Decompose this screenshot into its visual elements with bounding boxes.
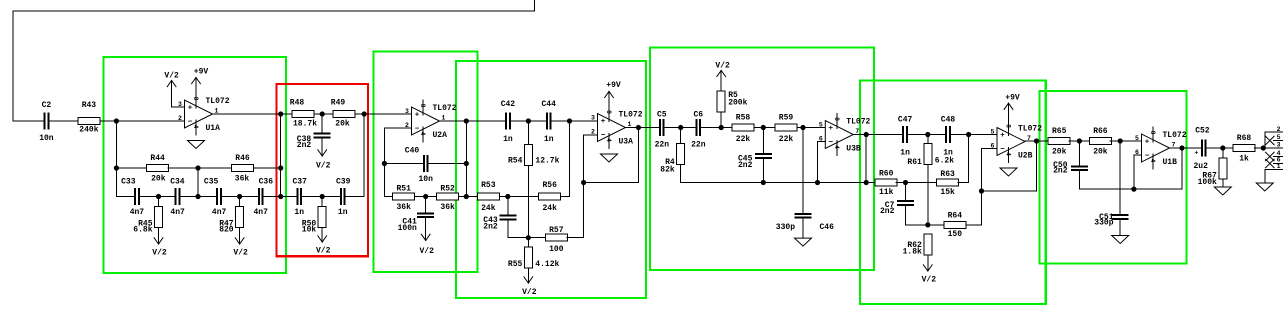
resistor R47 820 bbox=[219, 207, 243, 235]
svg-text:+: + bbox=[601, 118, 606, 126]
junction C41 tap bbox=[423, 194, 428, 199]
wire U2B pin6 vertical bbox=[981, 149, 983, 192]
svg-text:V/2: V/2 bbox=[152, 249, 167, 258]
junction U1A output bbox=[278, 111, 283, 116]
capacitor C38 2n2 bbox=[297, 133, 331, 150]
wire R56 right bbox=[561, 196, 570, 198]
svg-text:2: 2 bbox=[178, 115, 182, 122]
junction R62 node bbox=[925, 222, 930, 227]
resistor R44 20k bbox=[147, 154, 169, 184]
svg-text:20k: 20k bbox=[1093, 148, 1108, 157]
stage 1 highlight box (green) bbox=[104, 57, 286, 273]
supply V/2 under C41 bbox=[419, 218, 434, 256]
op-amp U3B TL072 bbox=[819, 114, 871, 156]
resistor R48 18.7k bbox=[290, 99, 317, 129]
capacitor C33 4n7 bbox=[121, 177, 144, 217]
wire U2A pin 2 left bbox=[384, 127, 411, 129]
svg-text:R46: R46 bbox=[235, 154, 250, 163]
supply V/2 under R50 bbox=[316, 228, 331, 256]
wire to R55 bbox=[527, 238, 529, 247]
wire to C40 bbox=[384, 163, 422, 165]
op-amp U2A TL072 bbox=[405, 100, 457, 142]
svg-text:R44: R44 bbox=[150, 154, 165, 163]
resistor R49 20k bbox=[331, 99, 355, 129]
wire U2B pin 6 bbox=[982, 148, 998, 150]
junction U2B output bbox=[1034, 138, 1039, 143]
wire C35 to C36 bbox=[222, 196, 258, 198]
wire to R54 bbox=[527, 121, 529, 145]
svg-text:330p: 330p bbox=[1094, 219, 1113, 228]
junction row C mid bbox=[195, 165, 200, 170]
capacitor C42 1n bbox=[501, 100, 516, 144]
resistor R53 24k bbox=[477, 181, 499, 213]
svg-text:C42: C42 bbox=[501, 100, 516, 109]
wire C43 to R55 node bbox=[507, 220, 509, 237]
svg-text:2: 2 bbox=[1277, 126, 1281, 133]
resistor R60 11k bbox=[875, 170, 897, 198]
svg-text:2: 2 bbox=[591, 129, 595, 136]
stage 2 highlight box (red) bbox=[277, 84, 369, 256]
wire R58 to R59 bbox=[754, 127, 775, 129]
capacitor C5 22n bbox=[655, 111, 670, 150]
svg-text:TL072: TL072 bbox=[1163, 131, 1187, 140]
svg-text:V/2: V/2 bbox=[316, 162, 331, 171]
wire U2A feedback vertical bbox=[383, 128, 385, 197]
wire C44 to U3A pin 3 bbox=[552, 120, 598, 122]
svg-text:6.8k: 6.8k bbox=[133, 226, 152, 235]
svg-text:R60: R60 bbox=[879, 170, 894, 179]
resistor R56 24k bbox=[539, 181, 561, 213]
wire C45 to bottom row bbox=[762, 159, 764, 183]
capacitor C44 1n bbox=[541, 100, 556, 144]
svg-text:1: 1 bbox=[628, 121, 632, 128]
svg-text:4: 4 bbox=[605, 138, 612, 142]
wire R60 to R63 bbox=[896, 182, 937, 184]
wire C39 riser bbox=[363, 114, 365, 197]
svg-text:820: 820 bbox=[219, 226, 234, 235]
wire U1A output bbox=[213, 113, 292, 115]
junction R55 tap bbox=[526, 235, 531, 240]
svg-text:U3A: U3A bbox=[619, 138, 634, 147]
wire C47 to C48 bbox=[908, 134, 945, 136]
svg-text:5: 5 bbox=[1135, 135, 1139, 142]
wire to R61 bbox=[927, 135, 929, 144]
connector X1 pin 1 bbox=[1265, 163, 1283, 170]
svg-text:R56: R56 bbox=[542, 181, 557, 190]
wire R67 to ground bbox=[1222, 179, 1224, 187]
svg-text:2u2: 2u2 bbox=[1193, 162, 1208, 171]
svg-text:−: − bbox=[601, 132, 606, 140]
svg-text:20k: 20k bbox=[151, 175, 166, 184]
svg-text:1: 1 bbox=[442, 115, 446, 122]
svg-text:1n: 1n bbox=[900, 149, 910, 158]
wire U2B feedback horizontal bbox=[982, 190, 1037, 192]
wire R61 to R62 node bbox=[927, 165, 929, 225]
svg-text:C44: C44 bbox=[541, 100, 556, 109]
svg-text:2n2: 2n2 bbox=[738, 161, 753, 170]
supply V/2 under C38 bbox=[316, 139, 331, 171]
wire R53 to R56 bbox=[499, 196, 539, 198]
wire R63 riser bbox=[968, 135, 970, 183]
svg-text:4n7: 4n7 bbox=[212, 208, 227, 217]
capacitor C39 1n bbox=[336, 177, 351, 217]
svg-text:2n2: 2n2 bbox=[483, 223, 498, 232]
wire U1B feedback row bbox=[1079, 188, 1182, 190]
wire R46 right bbox=[254, 167, 281, 169]
svg-text:U3B: U3B bbox=[846, 145, 861, 154]
resistor R64 150 bbox=[944, 212, 966, 240]
svg-text:5: 5 bbox=[819, 122, 823, 129]
wire U3B pin 6 vertical bbox=[817, 142, 819, 183]
wire C7 to R64 node bbox=[906, 224, 928, 226]
svg-text:R59: R59 bbox=[779, 114, 794, 123]
wire to R50 bbox=[321, 197, 323, 207]
resistor R46 36k bbox=[232, 154, 254, 184]
junction R56 riser top bbox=[567, 118, 572, 123]
svg-text:U2B: U2B bbox=[1018, 152, 1033, 161]
wire R44 to R46 bbox=[168, 167, 231, 169]
resistor R63 15k bbox=[937, 170, 959, 197]
svg-text:C39: C39 bbox=[336, 177, 351, 186]
capacitor C40 10n bbox=[405, 147, 433, 185]
stage 3 highlight box (green) bbox=[374, 52, 478, 273]
junction C40 out bbox=[464, 161, 469, 166]
wire to C51 bbox=[1119, 141, 1121, 214]
svg-text:C47: C47 bbox=[898, 116, 913, 125]
junction C50 tap bbox=[1077, 138, 1082, 143]
svg-text:15k: 15k bbox=[940, 188, 955, 197]
svg-text:+: + bbox=[188, 105, 193, 113]
capacitor C34 4n7 bbox=[170, 177, 185, 217]
resistor R55 4.12k bbox=[508, 247, 560, 269]
svg-text:4n7: 4n7 bbox=[130, 208, 145, 217]
junction cap row right bbox=[278, 194, 283, 199]
resistor R50 10k bbox=[302, 207, 326, 235]
wire connector pin 1 to ground bbox=[1264, 169, 1266, 183]
svg-text:C34: C34 bbox=[170, 177, 185, 186]
svg-text:C5: C5 bbox=[657, 111, 667, 120]
svg-text:R43: R43 bbox=[82, 101, 97, 110]
wire U3B output feedback vertical bbox=[865, 135, 867, 183]
svg-text:R55: R55 bbox=[508, 260, 523, 269]
svg-text:TL072: TL072 bbox=[206, 97, 230, 106]
svg-text:8: 8 bbox=[833, 117, 840, 121]
svg-text:100n: 100n bbox=[398, 224, 417, 233]
svg-text:C33: C33 bbox=[121, 177, 136, 186]
junction C48 right bbox=[966, 132, 971, 137]
op-amp U1B TL072 bbox=[1135, 127, 1187, 169]
supply V/2 under R45 bbox=[152, 228, 167, 258]
wire feedback vertical x=280 bbox=[280, 114, 282, 197]
wire node A down bbox=[115, 121, 117, 197]
svg-text:C46: C46 bbox=[819, 223, 834, 232]
svg-text:36k: 36k bbox=[235, 175, 250, 184]
capacitor C7 2n2 bbox=[880, 200, 914, 216]
svg-text:1: 1 bbox=[1277, 163, 1281, 170]
svg-text:3: 3 bbox=[178, 101, 182, 108]
junction U2A output bbox=[464, 118, 469, 123]
svg-text:2n2: 2n2 bbox=[297, 141, 312, 150]
wire C5 to C6 bbox=[665, 127, 696, 129]
svg-text:TL072: TL072 bbox=[433, 104, 457, 113]
junction R45 tap bbox=[156, 194, 161, 199]
svg-text:240k: 240k bbox=[79, 126, 98, 135]
junction R4 tap bbox=[678, 125, 683, 130]
wire to C7 bbox=[905, 183, 907, 201]
wire U2A output feedback vertical bbox=[465, 121, 467, 197]
svg-text:C36: C36 bbox=[259, 177, 274, 186]
svg-text:C40: C40 bbox=[405, 147, 420, 156]
svg-text:5: 5 bbox=[1277, 134, 1281, 141]
wire to C46 bbox=[802, 128, 804, 213]
wire C48 to U2B pin 5 bbox=[951, 134, 997, 136]
svg-text:R66: R66 bbox=[1093, 127, 1108, 136]
capacitor C48 1n bbox=[941, 116, 956, 158]
wire input to C2 bbox=[13, 120, 44, 122]
wire R64 left bbox=[928, 224, 944, 226]
junction U1B pin6 bottom bbox=[1131, 187, 1136, 192]
svg-text:−: − bbox=[1145, 153, 1150, 161]
svg-text:R53: R53 bbox=[481, 181, 496, 190]
svg-text:C48: C48 bbox=[941, 116, 956, 125]
wire R43 to U1A pin 2 bbox=[100, 120, 185, 122]
svg-text:5: 5 bbox=[991, 129, 995, 136]
svg-text:36k: 36k bbox=[396, 203, 411, 212]
svg-text:4n7: 4n7 bbox=[253, 208, 268, 217]
svg-text:TL072: TL072 bbox=[1018, 125, 1042, 134]
wire C40 right bbox=[429, 163, 467, 165]
junction C43 tap bbox=[505, 194, 510, 199]
svg-text:V/2: V/2 bbox=[233, 249, 248, 258]
svg-text:1n: 1n bbox=[503, 135, 513, 144]
resistor R45 6.8k bbox=[133, 207, 162, 235]
svg-text:4.12k: 4.12k bbox=[535, 260, 559, 269]
wire U3B output bbox=[853, 134, 902, 136]
svg-text:1n: 1n bbox=[338, 208, 348, 217]
wire to R45 bbox=[158, 197, 160, 207]
junction R54 tap bbox=[526, 118, 531, 123]
svg-text:8: 8 bbox=[1149, 131, 1156, 135]
svg-text:8: 8 bbox=[1005, 124, 1012, 128]
wire R49 to U2A pin 3 bbox=[355, 113, 412, 115]
wire C46 to ground bbox=[802, 219, 804, 239]
svg-text:150: 150 bbox=[948, 230, 963, 239]
svg-text:20k: 20k bbox=[335, 120, 350, 129]
wire C34 to C35 bbox=[181, 196, 217, 198]
stage 7 highlight box (green) bbox=[1040, 91, 1187, 263]
svg-text:−: − bbox=[829, 139, 834, 147]
resistor R65 20k bbox=[1048, 127, 1070, 157]
svg-text:24k: 24k bbox=[542, 204, 557, 213]
wire row C to cap row bbox=[197, 168, 199, 197]
svg-text:4: 4 bbox=[1149, 159, 1156, 163]
resistor R4 82k bbox=[660, 144, 684, 175]
junction R67 tap bbox=[1220, 145, 1225, 150]
capacitor C41 100n bbox=[398, 212, 435, 233]
stage 5 highlight box (green) bbox=[650, 48, 874, 271]
svg-text:+9V: +9V bbox=[606, 81, 621, 90]
svg-text:4: 4 bbox=[419, 132, 426, 136]
capacitor C6 22n bbox=[691, 111, 706, 150]
svg-text:2n2: 2n2 bbox=[1053, 167, 1068, 176]
junction R61 tap bbox=[925, 132, 930, 137]
svg-text:18.7k: 18.7k bbox=[293, 120, 317, 129]
svg-text:C37: C37 bbox=[293, 177, 308, 186]
svg-text:8: 8 bbox=[605, 110, 612, 114]
wire cap row left bbox=[116, 196, 134, 198]
wire V/2 to U1A pin 3 bbox=[172, 106, 185, 108]
junction R50 tap bbox=[320, 194, 325, 199]
capacitor C35 4n7 bbox=[204, 177, 227, 217]
svg-text:6: 6 bbox=[991, 143, 995, 150]
op-amp U1A TL072 bbox=[178, 93, 230, 135]
wire C37 to C39 bbox=[302, 196, 340, 198]
wire bottom row stage 4 bbox=[681, 182, 877, 184]
junction C40 left bbox=[382, 161, 387, 166]
junction U3B output bbox=[864, 132, 869, 137]
svg-text:20k: 20k bbox=[1052, 148, 1067, 157]
svg-text:6: 6 bbox=[1135, 149, 1139, 156]
wire connector pin2 to pin3 bbox=[1264, 132, 1266, 148]
svg-text:100: 100 bbox=[549, 245, 564, 254]
svg-text:4: 4 bbox=[192, 125, 199, 129]
svg-text:C6: C6 bbox=[693, 111, 703, 120]
wire C51 to ground bbox=[1119, 220, 1121, 236]
wire C33 to C34 bbox=[140, 196, 175, 198]
svg-text:200k: 200k bbox=[728, 99, 747, 108]
ground at U2B pin 4 bbox=[1000, 168, 1017, 176]
wire C2 to R43 bbox=[49, 120, 78, 122]
svg-text:7: 7 bbox=[1172, 142, 1176, 149]
svg-text:R58: R58 bbox=[736, 114, 751, 123]
svg-text:R52: R52 bbox=[440, 185, 455, 194]
svg-text:V/2: V/2 bbox=[922, 275, 937, 284]
node A junction bbox=[114, 118, 119, 123]
wire U2A output bbox=[440, 120, 506, 122]
svg-text:R65: R65 bbox=[1052, 127, 1067, 136]
svg-text:R49: R49 bbox=[331, 99, 346, 108]
svg-text:+: + bbox=[1195, 150, 1199, 157]
wire U1B output bbox=[1170, 147, 1201, 149]
svg-text:−: − bbox=[415, 126, 420, 134]
resistor R61 6.2k bbox=[907, 144, 954, 167]
capacitor C46 330p bbox=[776, 213, 834, 232]
svg-text:+9V: +9V bbox=[1005, 94, 1020, 103]
junction row C left bbox=[114, 165, 119, 170]
connector X1 pin 5 no-connect bbox=[1266, 134, 1283, 145]
wire R64 right bbox=[966, 224, 982, 226]
svg-text:V/2: V/2 bbox=[522, 288, 537, 297]
wire R5 to row bbox=[720, 112, 722, 128]
supply +9V at U3A bbox=[605, 81, 621, 122]
svg-text:+9V: +9V bbox=[194, 68, 209, 77]
wire R48 to R49 bbox=[314, 113, 333, 115]
wire to C43 bbox=[507, 197, 509, 215]
svg-text:TL072: TL072 bbox=[846, 118, 870, 127]
wire input left vertical bbox=[12, 11, 14, 121]
resistor R57 100 bbox=[545, 226, 567, 254]
wire U1B pin 6 vertical bbox=[1133, 155, 1135, 189]
connector X1 pin 2 bbox=[1265, 131, 1283, 133]
svg-text:8: 8 bbox=[192, 97, 199, 101]
ground at U1A pin 4 bbox=[188, 141, 205, 149]
svg-text:R51: R51 bbox=[396, 185, 411, 194]
junction R47 tap bbox=[237, 194, 242, 199]
svg-text:3: 3 bbox=[591, 115, 595, 122]
supply V/2 at U1A pin 3 bbox=[164, 72, 179, 108]
wire to C41 bbox=[425, 197, 427, 213]
svg-text:11k: 11k bbox=[879, 188, 894, 197]
svg-text:22k: 22k bbox=[736, 135, 751, 144]
svg-text:V/2: V/2 bbox=[419, 247, 434, 256]
wire top exit bbox=[534, 0, 536, 11]
svg-text:R63: R63 bbox=[940, 170, 955, 179]
ground at U3A pin 4 bbox=[601, 154, 618, 162]
resistor R5 200k bbox=[717, 91, 747, 112]
wire U3A feedback horizontal bbox=[584, 182, 639, 184]
wire to R67 bbox=[1222, 148, 1224, 158]
resistor R67 100k bbox=[1198, 158, 1227, 187]
capacitor C50 2n2 bbox=[1053, 161, 1088, 176]
junction U2B feedback bbox=[979, 188, 984, 193]
svg-text:−: − bbox=[188, 119, 193, 127]
svg-text:24k: 24k bbox=[481, 204, 496, 213]
junction C45 bottom bbox=[761, 180, 766, 185]
wire C6 to R58 bbox=[701, 127, 732, 129]
capacitor C52 2u2 polarized bbox=[1193, 127, 1209, 172]
resistor R59 22k bbox=[775, 114, 797, 145]
wire R66 to U1B pin 5 bbox=[1110, 140, 1141, 142]
wire R68 to connector pin 3 bbox=[1254, 147, 1283, 149]
supply +9V at U1A bbox=[192, 68, 209, 109]
wire to R47 bbox=[239, 197, 241, 207]
junction cap row mid bbox=[195, 194, 200, 199]
wire C50 down bbox=[1078, 171, 1080, 189]
svg-text:12.7k: 12.7k bbox=[535, 156, 559, 165]
junction C51 tap bbox=[1118, 138, 1123, 143]
wire top horizontal bbox=[13, 10, 535, 12]
junction U3A feedback bbox=[581, 180, 586, 185]
svg-text:+: + bbox=[1145, 139, 1150, 147]
svg-text:1k: 1k bbox=[1239, 155, 1249, 164]
ground under C46 bbox=[795, 238, 812, 246]
svg-text:C35: C35 bbox=[204, 177, 219, 186]
wire to R51 bbox=[384, 196, 392, 198]
wire U3B pin 6 bbox=[818, 141, 826, 143]
svg-text:4: 4 bbox=[1005, 152, 1012, 156]
ground at connector pin 1 bbox=[1256, 183, 1273, 191]
svg-text:TL072: TL072 bbox=[619, 111, 643, 120]
wire R51 to R52 bbox=[415, 196, 437, 198]
capacitor C43 2n2 bbox=[483, 215, 516, 232]
resistor R58 22k bbox=[732, 114, 754, 145]
junction R5 tap bbox=[719, 125, 724, 130]
wire to C38 bbox=[321, 114, 323, 133]
op-amp U3A TL072 bbox=[591, 107, 643, 149]
svg-text:1.8k: 1.8k bbox=[903, 247, 922, 256]
junction C45 tap bbox=[761, 125, 766, 130]
svg-text:3: 3 bbox=[1277, 141, 1281, 148]
wire C52 to R68 bbox=[1207, 147, 1234, 149]
junction U1B output bbox=[1179, 145, 1184, 150]
wire to C45 bbox=[762, 128, 764, 154]
wire R57 right bbox=[567, 237, 584, 239]
connector X1 pin 4 no-connect bbox=[1266, 150, 1283, 161]
wire U1B output feedback vertical bbox=[1181, 148, 1183, 189]
svg-text:22k: 22k bbox=[779, 135, 794, 144]
capacitor C37 1n bbox=[293, 177, 308, 217]
svg-text:+: + bbox=[1000, 132, 1005, 140]
